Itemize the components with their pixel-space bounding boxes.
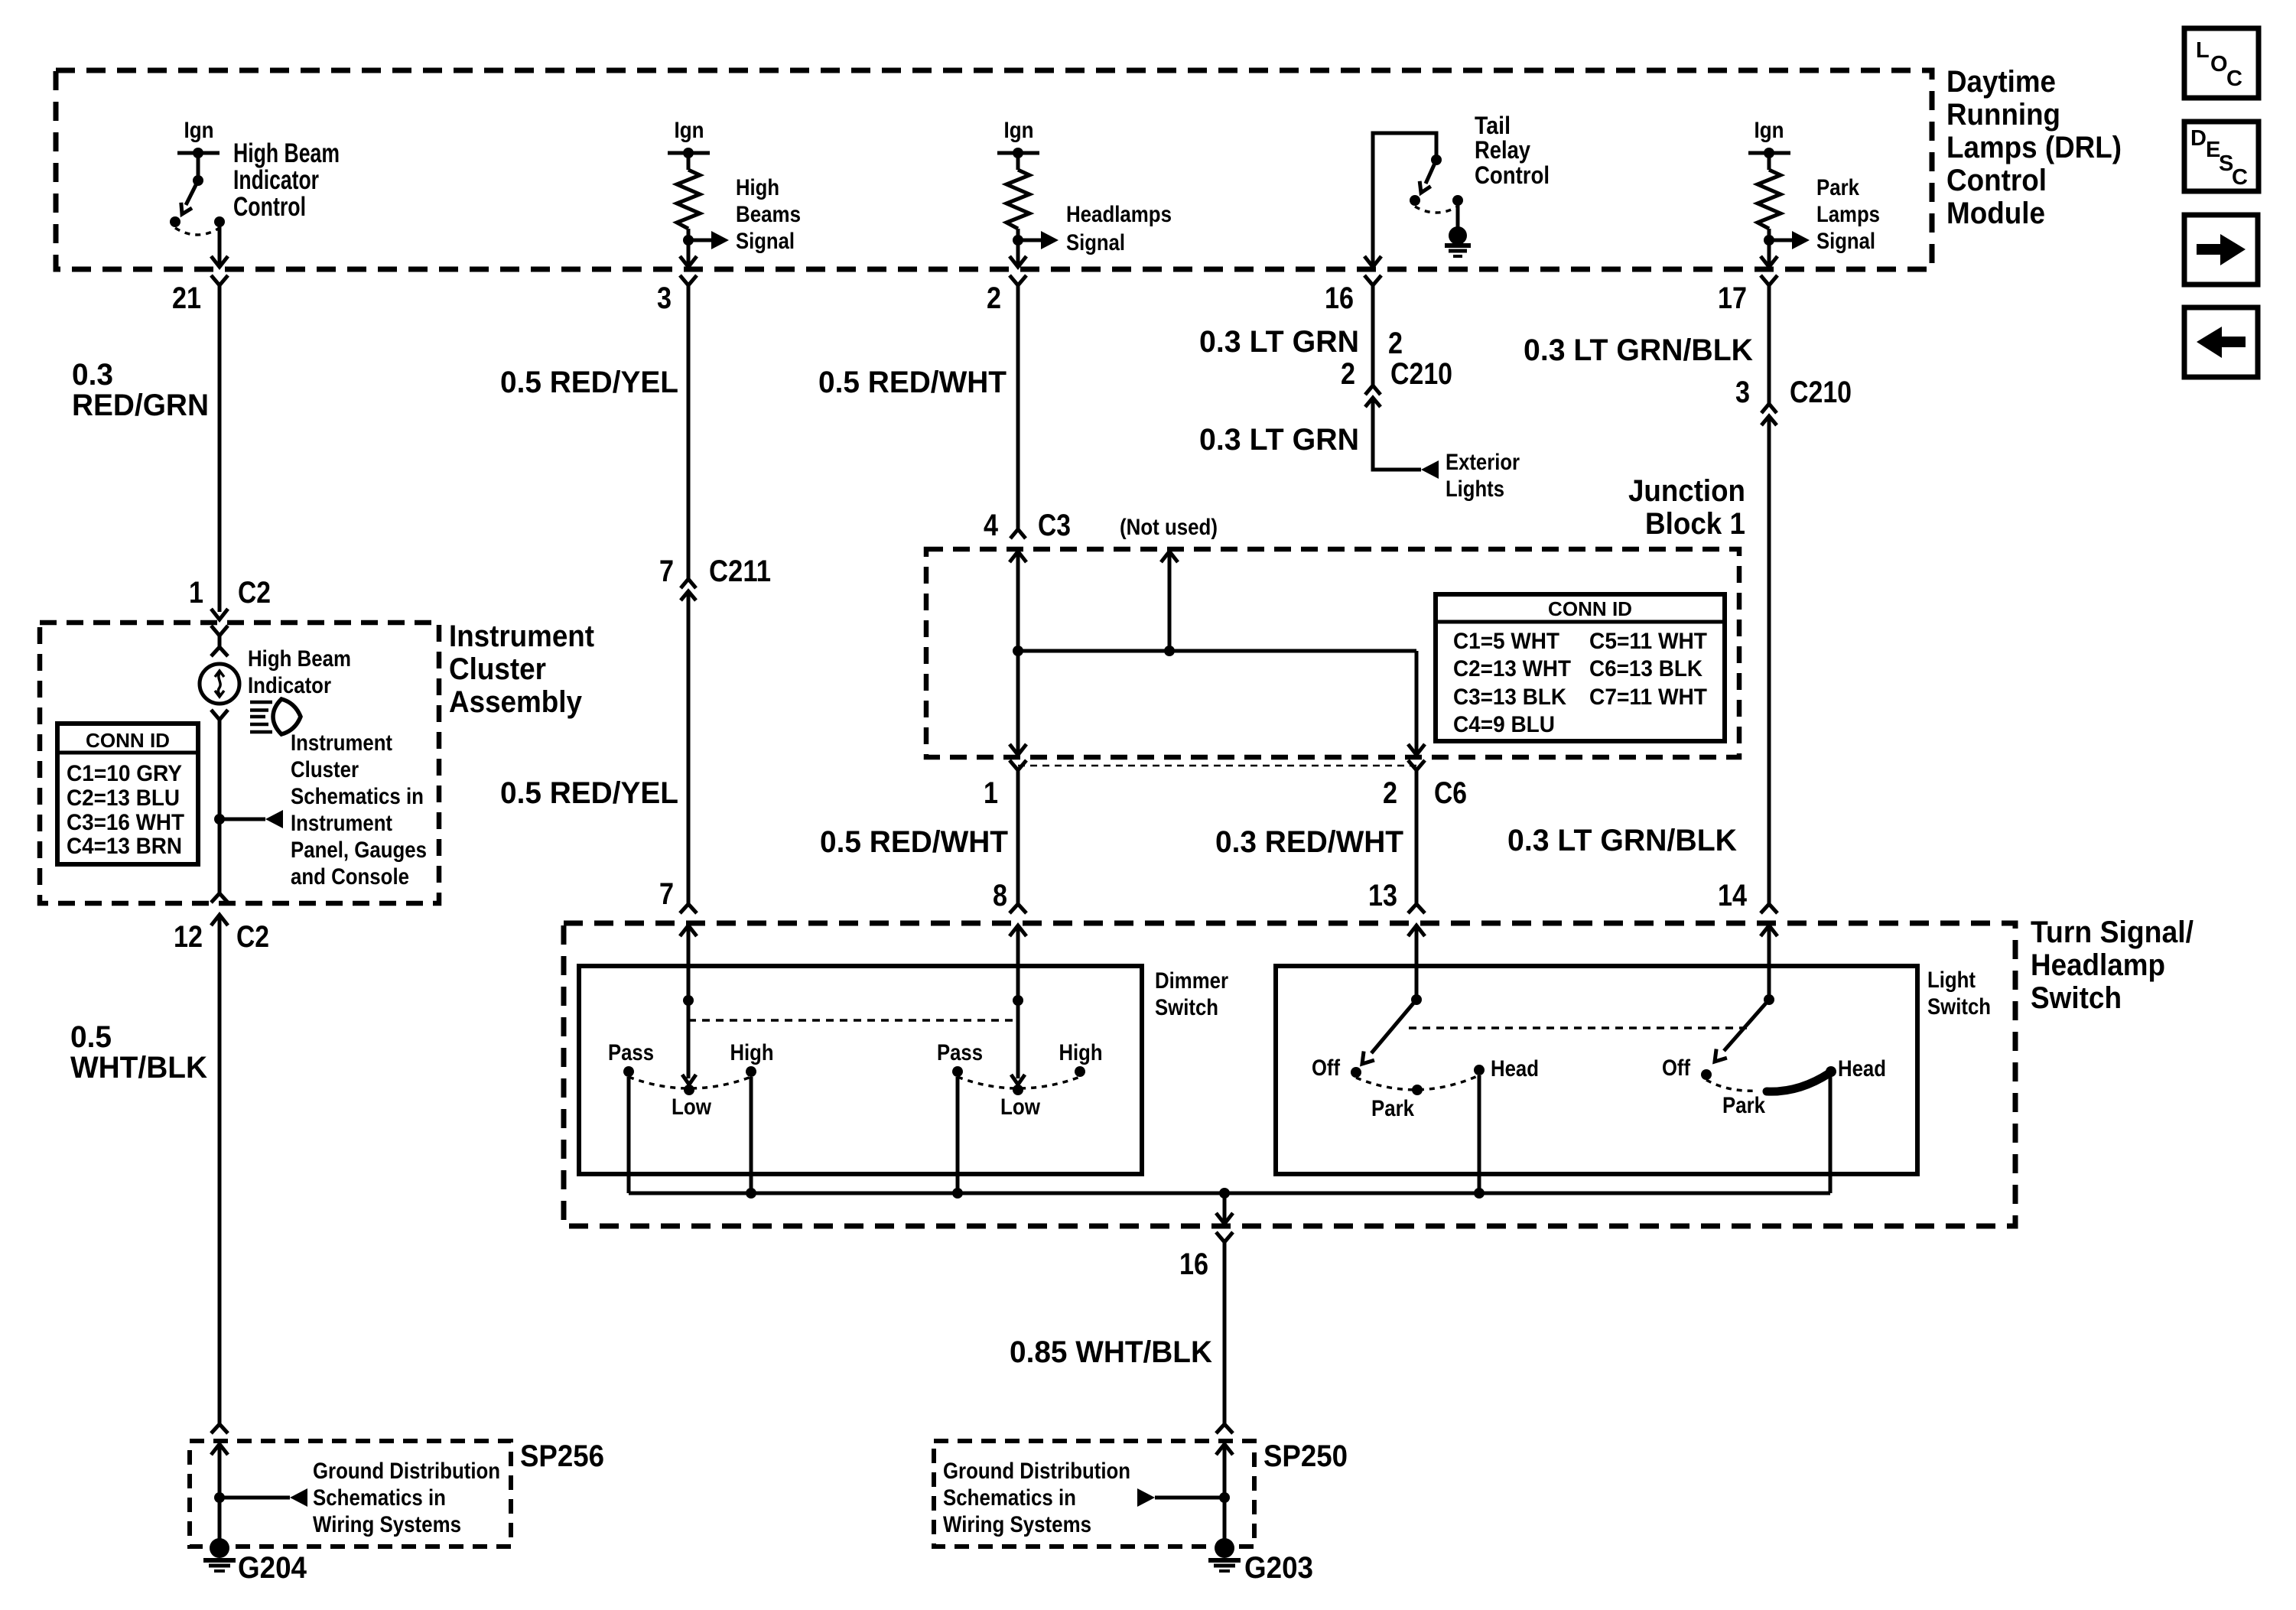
svg-text:Lights: Lights [1446, 476, 1504, 502]
lamp lower terminal chevron [211, 710, 228, 720]
ground G204 [203, 1538, 236, 1571]
svg-text:G203: G203 [1244, 1551, 1313, 1585]
pin 16 connector chevron [1364, 275, 1381, 285]
svg-text:0.5 RED/WHT: 0.5 RED/WHT [818, 366, 1007, 399]
svg-text:Turn Signal/: Turn Signal/ [2031, 916, 2194, 949]
wire: lamp to pin 12 inside cluster [218, 720, 222, 893]
label: High Beams Signal [736, 175, 801, 254]
svg-text:C: C [2226, 67, 2242, 91]
svg-text:Signal: Signal [1066, 230, 1125, 255]
wire: Pass pole2 to switch bus [956, 1077, 960, 1193]
svg-text:C6: C6 [1434, 776, 1467, 810]
svg-text:Cluster: Cluster [449, 652, 546, 686]
node: tail relay pivot [1431, 154, 1442, 165]
pin 13 chevron and label [1368, 879, 1425, 913]
module box: Instrument Cluster Assembly (dashed) [40, 623, 439, 903]
label: Ground Distribution Schematics in Wiring Systems (left) [313, 1459, 500, 1537]
mechanical linkage (dashed) light switch [1409, 1026, 1748, 1029]
svg-text:0.3: 0.3 [72, 358, 113, 392]
wire: relay contact to ground [1456, 200, 1460, 229]
node: Off contact (pole 1) [1351, 1067, 1361, 1078]
wire: 0.3 LT GRN pin 16 to C210 [1371, 285, 1375, 385]
arrow down to junction block pin 1 [1010, 744, 1026, 755]
arrow up into junction block pin 4 [1010, 551, 1026, 562]
wire: 0.3 RED/GRN pin 21 to cluster [218, 285, 222, 612]
node: SW1 left contact [170, 216, 180, 227]
wire: 0.85 WHT/BLK pin 16 to SP250 [1223, 1242, 1227, 1424]
pin 16 chevron and label [1179, 1232, 1233, 1281]
node: Ign tap dot [193, 148, 203, 158]
wire: Ign bar (headlamps) [997, 151, 1039, 155]
arrow into pin 16 [1364, 256, 1381, 267]
legend box: LOC [2184, 28, 2259, 98]
svg-text:Pass: Pass [608, 1040, 654, 1065]
lamp terminal upper chevron [211, 636, 228, 656]
svg-text:C2: C2 [238, 576, 271, 610]
pin 2 connector chevron [1010, 275, 1026, 285]
label: Exterior Lights [1446, 450, 1520, 502]
svg-text:0.5 RED/YEL: 0.5 RED/YEL [500, 366, 678, 399]
svg-text:Ign: Ign [675, 118, 704, 143]
svg-text:WHT/BLK: WHT/BLK [70, 1051, 207, 1085]
svg-text:Beams: Beams [736, 202, 801, 227]
svg-text:1: 1 [189, 576, 203, 610]
signal ref arrow: Headlamps Signal [1018, 239, 1042, 242]
connector C211 inline [659, 555, 771, 600]
connector chevron above SP250 [1216, 1424, 1233, 1433]
legend box: back arrow [2184, 307, 2258, 377]
arrow into pin 2 [1010, 256, 1026, 267]
svg-text:C2=13 WHT: C2=13 WHT [1453, 656, 1571, 681]
svg-text:Relay: Relay [1475, 136, 1530, 164]
node: bus junction High pole1 [746, 1188, 756, 1199]
svg-text:C4=13 BRN: C4=13 BRN [67, 834, 182, 859]
switch: dimmer pole 2 lever to Low [1016, 1000, 1020, 1078]
svg-text:C210: C210 [1390, 357, 1452, 391]
node: junction block splice 2 (not used stub) [1164, 646, 1175, 656]
mechanical linkage (dashed) dimmer [688, 1019, 1018, 1022]
wire: not used stub with arrow [1168, 553, 1172, 651]
svg-text:Schematics in: Schematics in [291, 784, 424, 809]
label: Junction Block 1 [1628, 474, 1745, 541]
svg-text:Park: Park [1722, 1093, 1765, 1118]
wire: 0.5 WHT/BLK pin 12 to SP256 [218, 915, 222, 1424]
svg-text:Lamps: Lamps [1816, 202, 1880, 227]
node: High contact (pole 1) [746, 1066, 756, 1077]
node: Head contact (pole 1) [1474, 1065, 1485, 1075]
component box: Dimmer Switch [579, 966, 1142, 1174]
wire: pin 14 into light switch [1768, 925, 1771, 1000]
pin 17 connector chevron [1761, 275, 1777, 285]
node: Low contact (pole 2) [1013, 1085, 1023, 1095]
connector chevron at cluster pin 12 [211, 893, 228, 903]
labels Pass High Low (pole 2) [937, 1040, 1103, 1120]
wire: Ign to resistor R1 [687, 153, 691, 170]
svg-text:7: 7 [659, 555, 674, 588]
labels Off Park Head (pole 2) [1662, 1055, 1886, 1118]
svg-text:C7=11 WHT: C7=11 WHT [1589, 685, 1707, 710]
svg-text:14: 14 [1718, 879, 1748, 912]
connector table: CONN ID (junction block) [1436, 594, 1725, 741]
wire label: 0.3 RED/GRN [72, 358, 209, 422]
svg-text:8: 8 [993, 879, 1007, 912]
node: cluster schematic ref tap [214, 814, 225, 825]
connector chevron inside cluster (pin 1) [211, 626, 228, 636]
arrow up into switch pin 8 [1010, 925, 1026, 936]
svg-text:2: 2 [1383, 776, 1397, 810]
svg-text:Park: Park [1371, 1096, 1414, 1121]
node: Park contact (pole 1) [1412, 1085, 1423, 1095]
wire: bus to pin 16 with arrow [1223, 1193, 1227, 1221]
label: High Beam Indicator Control [233, 138, 340, 222]
signal ref arrow: High Beams Signal [688, 239, 712, 242]
label: Park Lamps Signal [1816, 175, 1880, 254]
svg-text:0.85 WHT/BLK: 0.85 WHT/BLK [1010, 1335, 1212, 1369]
node: Pass contact (pole 2) [952, 1066, 963, 1077]
svg-text:C1=10 GRY: C1=10 GRY [67, 761, 182, 786]
switch SW1: High Beam Indicator Control lever [181, 153, 203, 214]
legend box: DESC [2184, 122, 2259, 191]
wire label: 0.5 WHT/BLK [70, 1020, 207, 1085]
svg-text:Switch: Switch [1927, 994, 1991, 1020]
svg-text:Indicator: Indicator [248, 673, 331, 698]
dimmer pole 2 throw arc (dashed) [958, 1077, 1080, 1088]
svg-text:G204: G204 [238, 1551, 307, 1585]
svg-text:C2=13 BLU: C2=13 BLU [67, 785, 180, 811]
svg-text:2: 2 [1341, 357, 1355, 391]
connector C6 boundary (thin dashed) [1018, 765, 1416, 767]
svg-text:C2: C2 [236, 920, 269, 954]
svg-text:Low: Low [1000, 1094, 1041, 1120]
connector chevron at C3 [1010, 529, 1026, 538]
svg-text:C3=16 WHT: C3=16 WHT [67, 810, 184, 835]
resistor R3: Park Lamps pull-up [1758, 170, 1781, 229]
svg-text:Head: Head [1838, 1056, 1886, 1081]
svg-text:0.3 LT GRN/BLK: 0.3 LT GRN/BLK [1507, 824, 1737, 857]
svg-text:1: 1 [984, 776, 998, 810]
svg-text:Ign: Ign [1004, 118, 1034, 143]
wire: Ign to resistor R2 [1016, 153, 1020, 170]
svg-text:C211: C211 [709, 555, 771, 588]
wire: pin 8 into dimmer switch [1016, 925, 1020, 1000]
wire: 0.5 RED/YEL C211 to switch pin 7 [687, 591, 691, 904]
pin 4 C3 labels [984, 509, 1071, 542]
node: light switch pole 2 pivot [1764, 994, 1774, 1005]
switch: light switch pole 1 lever to Off [1371, 1000, 1416, 1053]
svg-text:Running: Running [1946, 98, 2060, 132]
label: Ground Distribution Schematics in Wiring Systems (right) [943, 1459, 1130, 1537]
svg-text:C5=11 WHT: C5=11 WHT [1589, 629, 1707, 654]
wire: 0.3 RED/WHT junction block pin 2 to switch pin 13 [1415, 770, 1419, 904]
svg-text:C4=9 BLU: C4=9 BLU [1453, 712, 1555, 737]
wire: junction block internal right leg [1415, 651, 1419, 754]
svg-text:C6=13 BLK: C6=13 BLK [1589, 656, 1702, 681]
svg-text:C3: C3 [1038, 509, 1071, 542]
svg-text:Schematics in: Schematics in [313, 1485, 446, 1511]
wire: R3 to pin 17 [1768, 229, 1771, 265]
node: park lamps signal tap [1764, 235, 1774, 246]
wire: 0.5 RED/YEL pin 3 to C211 [687, 285, 691, 579]
switch SW2 throw arc (dashed) [1415, 207, 1458, 213]
legend box: forward arrow [2184, 215, 2258, 285]
svg-text:and Console: and Console [291, 864, 409, 890]
svg-text:C1=5 WHT: C1=5 WHT [1453, 629, 1559, 654]
svg-text:2: 2 [987, 281, 1001, 315]
arrow up into switch pin 14 [1761, 925, 1777, 936]
svg-text:Control: Control [233, 192, 306, 222]
splice box SP256 (dashed) [190, 1441, 511, 1547]
node: light switch pole 1 pivot [1411, 994, 1422, 1005]
light switch pole 1 throw arc (dashed) [1356, 1075, 1479, 1090]
connector C210 inline (tail relay circuit) [1341, 357, 1452, 407]
pin 3 connector chevron [680, 275, 697, 285]
node: Off contact (pole 2) [1701, 1069, 1712, 1080]
svg-text:Indicator: Indicator [233, 165, 319, 195]
svg-text:Module: Module [1946, 197, 2045, 230]
svg-text:Daytime: Daytime [1946, 65, 2056, 99]
splice box SP250 (dashed) [934, 1441, 1254, 1547]
wire: SW1 to pin 21 with arrow [218, 222, 222, 265]
arrow into pin 17 [1761, 256, 1777, 267]
module box: Daytime Running Lamps (DRL) Control Module (dashed outline) [56, 70, 1932, 269]
arrow up into switch pin 13 [1408, 925, 1425, 936]
arrow down to junction block pin 2 [1408, 744, 1425, 755]
svg-text:21: 21 [172, 281, 201, 315]
svg-text:Low: Low [672, 1094, 712, 1120]
wire: SP256 internal to ground [218, 1444, 222, 1545]
svg-text:Instrument: Instrument [291, 811, 392, 836]
node: Ign dot (park lamps) [1764, 148, 1774, 158]
wire: Ign bar (high beams) [668, 151, 710, 155]
arrow up inside SP256 [211, 1444, 228, 1455]
switch: light switch pole 2 lever to Off [1724, 1000, 1769, 1051]
icon: high beam headlamp symbol [250, 699, 301, 734]
node: bus junction Head pole1 [1474, 1188, 1485, 1199]
wire: 0.3 LT GRN/BLK C210 to switch pin 14 [1768, 416, 1771, 904]
node: tail relay right contact [1452, 195, 1463, 206]
wire: Pass pole1 to switch bus [627, 1077, 631, 1193]
pin 12 C2 labels [174, 920, 269, 954]
switch: dimmer pole 1 lever to Low [687, 1000, 691, 1078]
wire: Head pole2 down and to switch bus [1829, 1075, 1833, 1193]
pin 8 chevron and label [993, 879, 1026, 913]
svg-text:Signal: Signal [1816, 229, 1875, 254]
node: high beams signal tap [683, 235, 694, 246]
label: Instrument Cluster Schematics in Instrument Panel, Gauges and Console [291, 730, 427, 890]
resistor R1: High Beams pull-up [677, 170, 700, 229]
pin 21 connector chevron [211, 275, 228, 285]
svg-text:Ground Distribution: Ground Distribution [943, 1459, 1130, 1484]
switch SW2: Tail Relay Control lever [1426, 160, 1436, 184]
wire: 0.3 LT GRN/BLK pin 17 to C210 [1768, 285, 1771, 404]
node: bus junction output 16 [1219, 1188, 1230, 1199]
svg-text:13: 13 [1368, 879, 1397, 912]
svg-text:0.5: 0.5 [70, 1020, 112, 1054]
connector chevron above SP256 [211, 1424, 228, 1433]
svg-text:High: High [1059, 1040, 1103, 1065]
svg-text:High: High [736, 175, 779, 200]
svg-text:Head: Head [1491, 1056, 1539, 1081]
wire: R2 to pin 2 [1016, 229, 1020, 265]
svg-text:Cluster: Cluster [291, 757, 359, 782]
svg-text:Instrument: Instrument [291, 730, 392, 756]
arrow up inside SP250 [1216, 1444, 1233, 1455]
svg-text:Block 1: Block 1 [1645, 507, 1745, 541]
node: junction block splice 1 [1013, 646, 1023, 656]
svg-text:C210: C210 [1790, 376, 1852, 409]
label: Instrument Cluster Assembly [449, 620, 594, 719]
wire: High pole1 to switch bus [750, 1077, 753, 1193]
pin labels 1 / 2 C6 [984, 776, 1467, 810]
wire: 0.5 RED/WHT pin 2 to junction block C3 [1016, 285, 1020, 529]
label: High Beam Indicator [248, 646, 351, 698]
wire: Ign bar (park lamps) [1748, 151, 1790, 155]
svg-text:0.3 RED/WHT: 0.3 RED/WHT [1215, 825, 1403, 859]
node: Ign dot (headlamps) [1013, 148, 1023, 158]
svg-text:Exterior: Exterior [1446, 450, 1520, 475]
svg-text:Off: Off [1662, 1055, 1691, 1081]
svg-text:D: D [2190, 126, 2207, 151]
wire: tail relay control loop [1373, 133, 1436, 265]
switch SW1 throw arc (dashed) [175, 228, 220, 235]
svg-text:Switch: Switch [2031, 981, 2122, 1015]
wire: Ign feed bar [177, 151, 220, 155]
node: bus junction Pass pole2 [952, 1188, 963, 1199]
svg-text:SP250: SP250 [1263, 1439, 1348, 1473]
svg-text:Schematics in: Schematics in [943, 1485, 1076, 1511]
svg-text:Panel, Gauges: Panel, Gauges [291, 838, 427, 863]
module box: Junction Block 1 (dashed) [926, 549, 1739, 757]
wire: 0.5 RED/WHT junction block pin 1 to switch pin 8 [1016, 770, 1020, 904]
arrow up into cluster pin 12 [211, 915, 228, 925]
svg-text:O: O [2210, 52, 2228, 76]
svg-text:Light: Light [1927, 968, 1976, 993]
svg-text:Dimmer: Dimmer [1155, 968, 1228, 994]
svg-text:C3=13 BLK: C3=13 BLK [1453, 685, 1566, 710]
pin 7 chevron and label [659, 877, 697, 913]
node: High contact (pole 2) [1075, 1066, 1085, 1077]
connector table: CONN ID (instrument cluster) [57, 724, 198, 864]
wire: 0.3 LT GRN C210 to exterior lights ref [1373, 398, 1421, 470]
labels Pass High Low (pole 1) [608, 1040, 774, 1120]
svg-text:3: 3 [657, 281, 672, 315]
svg-text:Control: Control [1475, 161, 1550, 189]
node: SP250 ref tap [1219, 1492, 1230, 1503]
svg-text:Junction: Junction [1628, 474, 1745, 508]
resistor R2: Headlamps pull-up [1007, 170, 1029, 229]
svg-text:SP256: SP256 [520, 1439, 604, 1473]
ground G203 [1208, 1538, 1241, 1571]
closed contact thick arc Park-Head (pole 2) [1767, 1073, 1829, 1091]
node: dimmer pole 1 pivot [683, 995, 694, 1006]
arrow up into switch pin 7 [680, 925, 697, 936]
svg-text:High: High [730, 1040, 774, 1065]
label: Tail Relay Control [1475, 112, 1550, 189]
node: Low contact (pole 1) [684, 1085, 694, 1095]
svg-text:CONN ID: CONN ID [86, 729, 170, 752]
ref triangle: Exterior Lights [1421, 460, 1439, 479]
wire: pin 13 into light switch [1415, 925, 1419, 1000]
svg-text:0.3 LT GRN: 0.3 LT GRN [1199, 325, 1359, 359]
wire: SP250 internal to ground [1223, 1444, 1227, 1545]
node: Ign dot (high beams) [683, 148, 694, 158]
wire: R1 to pin 3 with junction [687, 229, 691, 265]
svg-text:Assembly: Assembly [449, 685, 583, 719]
module box: Turn Signal/Headlamp Switch (dashed) [564, 923, 2015, 1226]
svg-text:Ign: Ign [184, 118, 214, 143]
svg-text:4: 4 [984, 509, 999, 542]
arrow into pin 3 [680, 256, 697, 267]
svg-text:0.3 LT GRN/BLK: 0.3 LT GRN/BLK [1524, 333, 1753, 367]
label: Dimmer Switch [1155, 968, 1228, 1020]
wire: Ign to resistor R3 [1768, 153, 1771, 170]
wire: pin 7 into dimmer switch [687, 925, 691, 1000]
svg-text:17: 17 [1718, 281, 1747, 315]
svg-text:Wiring Systems: Wiring Systems [313, 1512, 461, 1537]
svg-text:16: 16 [1325, 281, 1354, 315]
svg-text:Control: Control [1946, 164, 2047, 197]
dimmer pole 1 throw arc (dashed) [629, 1077, 751, 1088]
ref arrow: cluster schematics [220, 818, 265, 821]
label: Turn Signal/Headlamp Switch [2031, 916, 2194, 1015]
node: SP256 ref tap [214, 1492, 225, 1503]
svg-text:Park: Park [1816, 175, 1859, 200]
svg-text:Wiring Systems: Wiring Systems [943, 1512, 1091, 1537]
svg-text:12: 12 [174, 920, 203, 954]
svg-text:C: C [2232, 165, 2248, 190]
svg-text:Tail: Tail [1475, 112, 1511, 139]
light switch pole 2 throw arc Off-Park (dashed) [1706, 1080, 1758, 1091]
indicator lamp DS1: High Beam Indicator [200, 664, 239, 704]
pin 1 C2 labels [189, 576, 271, 610]
svg-text:Lamps (DRL): Lamps (DRL) [1946, 131, 2122, 164]
svg-text:2: 2 [1388, 327, 1403, 360]
svg-text:0.3 LT GRN: 0.3 LT GRN [1199, 423, 1359, 457]
svg-text:CONN ID: CONN ID [1548, 597, 1632, 620]
svg-text:0.5 RED/WHT: 0.5 RED/WHT [820, 825, 1008, 859]
node: tail relay left contact [1410, 195, 1420, 206]
svg-text:3: 3 [1735, 376, 1750, 409]
label: Light Switch [1927, 968, 1991, 1020]
label: Daytime Running Lamps (DRL) Control Module [1946, 65, 2122, 230]
label: Headlamps Signal [1066, 202, 1172, 255]
svg-text:RED/GRN: RED/GRN [72, 389, 209, 422]
node: headlamps signal tap [1013, 235, 1023, 246]
svg-text:Ign: Ign [1755, 118, 1784, 143]
ground: tail relay internal ground [1445, 226, 1471, 256]
connector C6 chevron pin 1 [1010, 760, 1026, 770]
pin 14 chevron and label [1718, 879, 1777, 913]
ref arrow: ground distribution schematics (right) [1155, 1496, 1224, 1500]
signal ref arrow: Park Lamps Signal [1769, 239, 1793, 242]
svg-text:(Not used): (Not used) [1120, 515, 1218, 540]
svg-text:Ground Distribution: Ground Distribution [313, 1459, 500, 1484]
svg-text:Headlamp: Headlamp [2031, 948, 2165, 982]
svg-text:Instrument: Instrument [449, 620, 594, 653]
svg-text:Pass: Pass [937, 1040, 983, 1065]
component box: Light Switch [1276, 966, 1917, 1174]
node: Pass contact (pole 1) [623, 1066, 634, 1077]
node: dimmer pole 2 pivot [1013, 995, 1023, 1006]
svg-text:16: 16 [1179, 1247, 1208, 1281]
labels Off Park Head (pole 1) [1312, 1055, 1539, 1121]
connector C210 inline (park lamps circuit) [1735, 376, 1852, 425]
svg-text:Signal: Signal [736, 229, 795, 254]
svg-text:Switch: Switch [1155, 995, 1218, 1020]
ref arrow: ground distribution schematics (left) [220, 1496, 290, 1500]
wire: junction block internal vertical (C3 pin4 to C6 pin1) [1016, 551, 1020, 754]
connector C6 chevron pin 2 [1408, 760, 1425, 770]
